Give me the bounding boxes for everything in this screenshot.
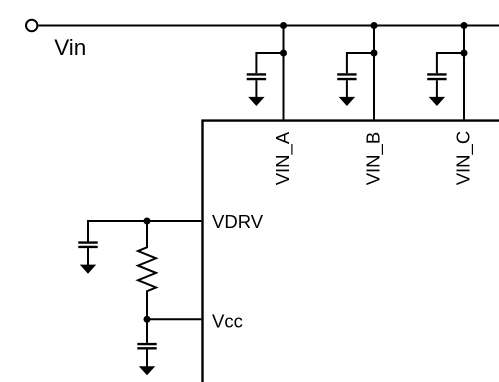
junction C2 branch <box>371 50 378 57</box>
pin label VIN_C <box>453 131 475 186</box>
ground C5 <box>139 366 155 375</box>
junction on top rail at VIN_C <box>461 22 468 29</box>
label Vin <box>54 35 86 60</box>
capacitor C3 <box>427 74 446 97</box>
wire VIN_C vertical drop <box>463 26 465 120</box>
wire branch to C3 <box>437 53 464 73</box>
capacitor C2 <box>337 74 356 97</box>
junction C1 branch <box>280 50 287 57</box>
ground C4 <box>80 265 96 274</box>
capacitor C1 <box>247 74 266 97</box>
junction VDRV / R1 <box>144 218 151 225</box>
pin label VDRV <box>212 211 264 232</box>
pin label VIN_A <box>272 131 294 185</box>
capacitor C5 <box>137 319 156 366</box>
capacitor C4 <box>78 243 97 265</box>
wire branch to C2 <box>347 53 374 73</box>
pin label VIN_B <box>363 132 385 185</box>
wire VIN_B vertical drop <box>373 26 375 120</box>
svg-text:Vin: Vin <box>54 35 86 60</box>
wire Vin top rail <box>39 25 499 27</box>
svg-text:VDRV: VDRV <box>212 211 264 232</box>
ground C2 <box>339 97 355 106</box>
input terminal Vin <box>26 20 37 31</box>
ground C1 <box>248 97 264 106</box>
svg-text:VIN_C: VIN_C <box>453 131 475 186</box>
junction on top rail at VIN_B <box>371 22 378 29</box>
svg-text:Vcc: Vcc <box>212 310 243 331</box>
wire branch to C1 <box>256 53 283 73</box>
wire VIN_A vertical drop <box>283 26 285 120</box>
pin label Vcc <box>212 310 243 331</box>
svg-text:VIN_A: VIN_A <box>272 131 294 185</box>
junction C3 branch <box>461 50 468 57</box>
ground C3 <box>429 97 445 106</box>
junction on top rail at VIN_A <box>280 22 287 29</box>
IC U1 outline <box>203 121 499 382</box>
resistor R1 <box>138 221 156 319</box>
svg-text:VIN_B: VIN_B <box>363 132 385 185</box>
wire VDRV <box>88 221 201 241</box>
wire Vcc <box>147 318 201 320</box>
junction Vcc / C5 <box>144 316 151 323</box>
